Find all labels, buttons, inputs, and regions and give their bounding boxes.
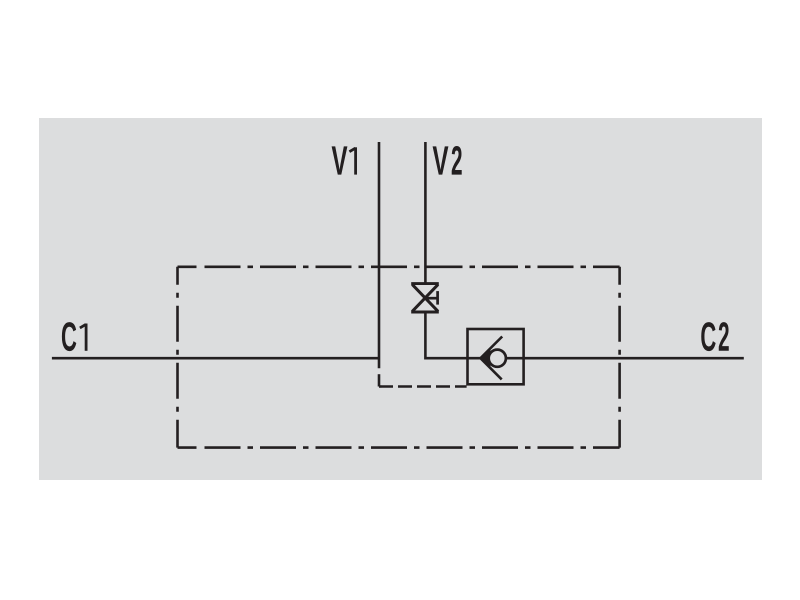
check valve seat line lower [481, 358, 502, 379]
wire V1 [378, 142, 381, 368]
check valve seat (filled wedge) [481, 348, 491, 368]
port label V1 [332, 146, 356, 174]
wire V2 [424, 142, 427, 284]
wire C1 [52, 357, 379, 360]
valve body boundary (dash-dot enclosure) [178, 267, 620, 448]
shut-off valve on V2 line (bowtie with T handle) [411, 284, 439, 312]
check valve box [468, 329, 524, 384]
check valve seat line upper [481, 337, 503, 359]
port label V2 [433, 146, 462, 175]
pilot line (dashed) vertical stub below V1 [378, 369, 381, 387]
pilot line (dashed) horizontal to check valve [379, 385, 467, 388]
wire V2 elbow to check valve and on to C2 [425, 312, 743, 358]
port label C1 [62, 322, 86, 351]
port label C2 [701, 322, 729, 351]
check valve ball [489, 350, 506, 367]
